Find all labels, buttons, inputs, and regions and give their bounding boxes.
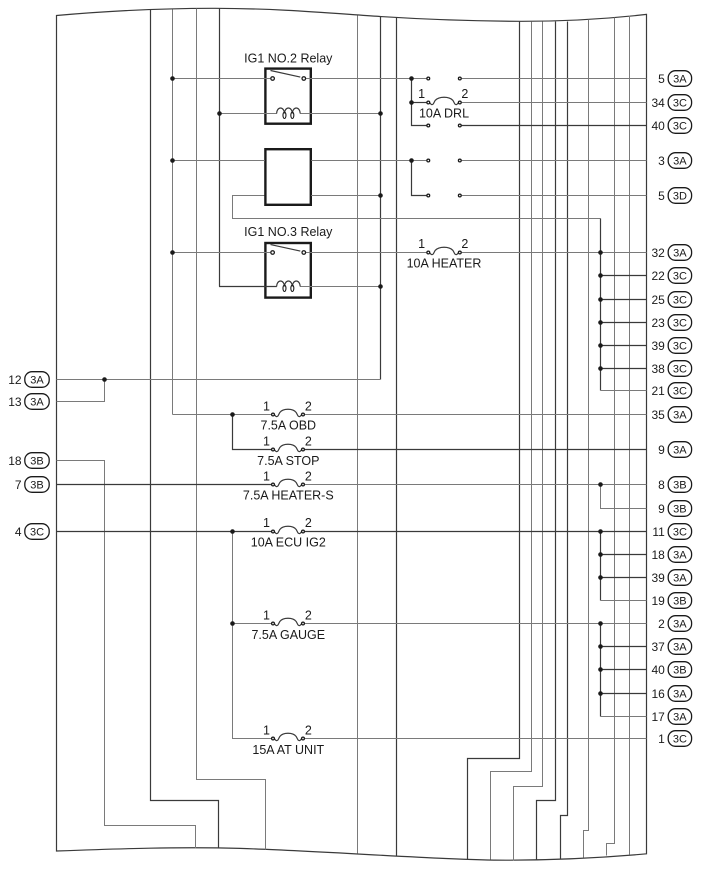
- svg-text:2: 2: [305, 435, 312, 449]
- svg-text:3C: 3C: [673, 734, 687, 746]
- svg-text:1: 1: [263, 435, 270, 449]
- svg-text:3B: 3B: [673, 504, 686, 516]
- svg-text:10A ECU IG2: 10A ECU IG2: [251, 536, 326, 550]
- svg-text:3A: 3A: [673, 712, 687, 724]
- svg-text:1: 1: [418, 87, 425, 101]
- svg-text:1: 1: [263, 516, 270, 530]
- svg-text:3C: 3C: [673, 98, 687, 110]
- svg-text:3A: 3A: [30, 375, 44, 387]
- svg-text:3A: 3A: [673, 573, 687, 585]
- svg-text:40: 40: [651, 663, 665, 677]
- svg-text:3B: 3B: [30, 456, 43, 468]
- svg-text:9: 9: [658, 443, 665, 457]
- svg-text:38: 38: [651, 362, 665, 376]
- svg-text:3B: 3B: [673, 596, 686, 608]
- svg-text:18: 18: [651, 548, 665, 562]
- svg-text:7.5A OBD: 7.5A OBD: [261, 419, 317, 433]
- svg-text:9: 9: [658, 502, 665, 516]
- svg-text:16: 16: [651, 687, 665, 701]
- svg-text:3C: 3C: [673, 271, 687, 283]
- svg-text:3C: 3C: [673, 295, 687, 307]
- svg-text:11: 11: [652, 525, 665, 539]
- svg-text:3B: 3B: [673, 480, 686, 492]
- svg-text:25: 25: [651, 293, 665, 307]
- svg-text:3A: 3A: [673, 156, 687, 168]
- svg-text:3C: 3C: [673, 121, 687, 133]
- svg-text:3A: 3A: [673, 689, 687, 701]
- svg-text:2: 2: [461, 87, 468, 101]
- svg-text:3A: 3A: [673, 410, 687, 422]
- svg-text:3C: 3C: [673, 341, 687, 353]
- svg-text:21: 21: [651, 384, 665, 398]
- svg-text:3A: 3A: [30, 397, 44, 409]
- svg-text:3A: 3A: [673, 248, 687, 260]
- svg-text:7: 7: [15, 478, 22, 492]
- svg-text:2: 2: [305, 399, 312, 413]
- svg-text:32: 32: [651, 246, 665, 260]
- svg-text:3C: 3C: [673, 364, 687, 376]
- svg-text:18: 18: [8, 454, 22, 468]
- svg-text:3C: 3C: [673, 386, 687, 398]
- svg-text:4: 4: [15, 525, 22, 539]
- svg-text:1: 1: [263, 399, 270, 413]
- svg-text:34: 34: [651, 96, 665, 110]
- svg-text:35: 35: [651, 408, 665, 422]
- svg-text:1: 1: [263, 609, 270, 623]
- svg-text:3A: 3A: [673, 619, 687, 631]
- svg-text:3B: 3B: [673, 665, 686, 677]
- svg-text:3A: 3A: [673, 642, 687, 654]
- svg-text:22: 22: [651, 269, 665, 283]
- svg-text:15A AT UNIT: 15A AT UNIT: [252, 743, 324, 757]
- svg-text:2: 2: [305, 516, 312, 530]
- svg-text:10A HEATER: 10A HEATER: [407, 256, 482, 270]
- svg-text:10A DRL: 10A DRL: [419, 106, 469, 120]
- svg-text:3: 3: [658, 154, 665, 168]
- svg-text:39: 39: [651, 339, 665, 353]
- svg-text:3A: 3A: [673, 74, 687, 86]
- svg-text:2: 2: [658, 617, 665, 631]
- svg-text:IG1 NO.3 Relay: IG1 NO.3 Relay: [244, 225, 333, 239]
- svg-text:1: 1: [418, 237, 425, 251]
- svg-text:3C: 3C: [30, 527, 44, 539]
- svg-text:7.5A GAUGE: 7.5A GAUGE: [251, 628, 325, 642]
- svg-text:1: 1: [263, 469, 270, 483]
- svg-text:13: 13: [8, 395, 22, 409]
- svg-text:19: 19: [651, 594, 665, 608]
- svg-text:23: 23: [651, 316, 665, 330]
- svg-text:2: 2: [305, 724, 312, 738]
- svg-text:3C: 3C: [673, 318, 687, 330]
- svg-text:17: 17: [651, 710, 665, 724]
- svg-text:1: 1: [263, 724, 270, 738]
- svg-text:7.5A HEATER-S: 7.5A HEATER-S: [243, 489, 334, 503]
- svg-text:2: 2: [305, 609, 312, 623]
- svg-text:2: 2: [461, 237, 468, 251]
- svg-text:5: 5: [658, 189, 665, 203]
- svg-text:3C: 3C: [673, 527, 687, 539]
- svg-text:1: 1: [658, 732, 665, 746]
- svg-text:7.5A STOP: 7.5A STOP: [257, 454, 319, 468]
- svg-text:12: 12: [8, 373, 22, 387]
- svg-text:2: 2: [305, 469, 312, 483]
- svg-text:3A: 3A: [673, 445, 687, 457]
- svg-text:3B: 3B: [30, 480, 43, 492]
- svg-text:40: 40: [651, 119, 665, 133]
- svg-text:5: 5: [658, 72, 665, 86]
- svg-text:37: 37: [651, 640, 665, 654]
- svg-text:3D: 3D: [673, 191, 687, 203]
- svg-text:3A: 3A: [673, 550, 687, 562]
- svg-text:39: 39: [651, 571, 665, 585]
- svg-text:IG1 NO.2 Relay: IG1 NO.2 Relay: [244, 51, 333, 65]
- svg-text:8: 8: [658, 478, 665, 492]
